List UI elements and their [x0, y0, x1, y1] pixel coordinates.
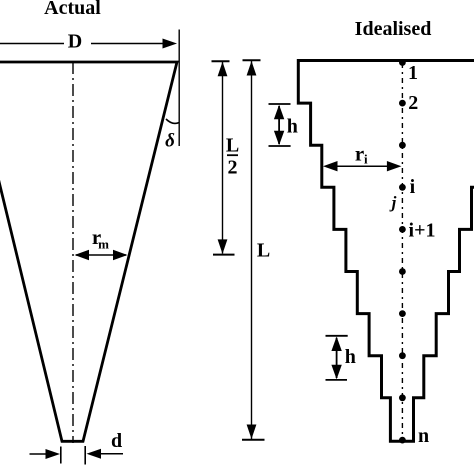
L/2 top tick: [212, 60, 230, 62]
dimension d left arrow: [30, 453, 48, 455]
centerline of idealised pile: [401, 63, 403, 440]
svg-text:n: n: [418, 425, 429, 447]
dimension L line: [251, 61, 253, 440]
svg-text:i+1: i+1: [409, 220, 436, 242]
L bottom arrowhead: [247, 425, 257, 440]
svg-text:δ: δ: [165, 131, 175, 152]
svg-text:d: d: [111, 430, 122, 452]
svg-text:r: r: [355, 142, 364, 166]
dimension L/2 line: [222, 62, 224, 254]
dimension D arrowhead: [163, 39, 178, 49]
svg-text:2: 2: [408, 92, 418, 114]
svg-text:Idealised: Idealised: [355, 18, 432, 40]
dimension r_i arrow: [325, 165, 400, 167]
dimension D line: [0, 43, 164, 45]
L/2 top arrowhead: [218, 62, 228, 77]
dimension h (bottom) ticks: [326, 335, 348, 337]
extension line left of tip: [60, 447, 62, 464]
label D: [64, 31, 91, 50]
node dots: [399, 59, 406, 443]
centerline of actual cone: [72, 62, 74, 443]
extension line right of tip: [84, 446, 86, 465]
svg-text:L: L: [226, 135, 239, 157]
svg-text:L: L: [257, 240, 270, 262]
svg-text:D: D: [68, 31, 82, 53]
L top arrowhead: [247, 61, 257, 76]
extension line at cone top right: [178, 30, 180, 147]
L/2 bottom arrowhead: [218, 239, 228, 254]
dimension h (bottom) arrows: [336, 338, 338, 378]
svg-text:1: 1: [408, 62, 418, 84]
actual cone outline: [0, 62, 177, 441]
svg-text:i: i: [364, 152, 368, 167]
L top tick: [243, 59, 261, 61]
dimension d right arrow: [100, 453, 123, 455]
dimension r_m arrow: [76, 254, 126, 256]
dimension h (top) ticks: [269, 103, 291, 105]
svg-text:i: i: [410, 176, 416, 198]
svg-text:h: h: [345, 346, 356, 368]
dimension h (top) arrows: [278, 106, 280, 144]
svg-text:m: m: [98, 237, 109, 252]
svg-text:2: 2: [228, 157, 238, 179]
L bottom tick: [242, 439, 265, 441]
svg-text:h: h: [287, 116, 298, 138]
idealised stepped outline: [298, 61, 474, 442]
svg-text:Actual: Actual: [44, 0, 101, 19]
L/2 bottom tick: [213, 254, 235, 256]
angle delta arc: [166, 119, 179, 123]
